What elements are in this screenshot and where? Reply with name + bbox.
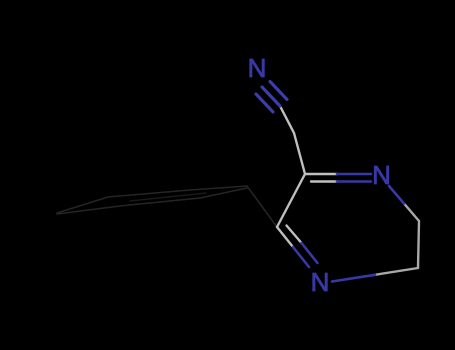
svg-text:N: N: [311, 267, 330, 297]
svg-text:N: N: [248, 53, 267, 83]
svg-text:N: N: [372, 160, 391, 190]
